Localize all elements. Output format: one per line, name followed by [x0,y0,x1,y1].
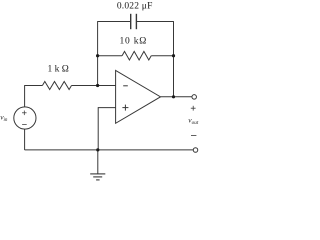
resistor R2 10 kOhm [98,51,174,60]
op-amp plus sign [122,105,128,111]
wire output [161,96,193,98]
junction node output [172,95,175,98]
wire feedback left vertical [97,21,99,85]
wire noninverting input horizontal [98,107,115,109]
capacitor C1 [131,14,137,29]
wire noninverting input vertical [97,107,99,150]
junction node R2 left [96,54,99,57]
ground [90,150,105,180]
output minus sign [191,135,196,137]
wire top capacitor branch left segment [98,21,131,23]
junction node inverting input [96,84,99,87]
wire feedback right vertical [173,21,175,97]
source plus sign [22,111,27,116]
junction node R2 right [172,54,175,57]
op-amp minus sign [123,85,128,87]
op-amp U1 [116,70,161,123]
source minus sign [22,124,27,126]
svg-text:1 k Ω: 1 k Ω [48,65,69,75]
svg-text:vin: vin [0,113,8,124]
voltage source VS [14,107,36,129]
terminal output top [192,95,197,100]
wire bottom rail [25,149,194,151]
terminal output bottom [193,148,198,153]
wire source top vertical [24,85,26,107]
wire source bottom vertical [24,129,26,150]
svg-text:vout: vout [188,116,199,126]
junction node ground rail [96,148,99,151]
svg-text:10 kΩ: 10 kΩ [119,37,147,47]
svg-text:0.022 μF: 0.022 μF [117,2,153,12]
wire top capacitor branch right segment [137,21,174,23]
resistor R1 1 kOhm + wire to inverting input [25,82,116,90]
output plus sign [191,106,196,111]
